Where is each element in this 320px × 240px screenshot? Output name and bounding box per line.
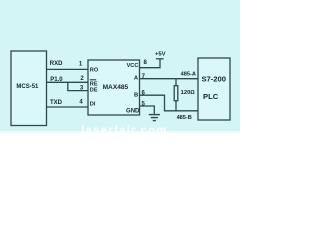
watermark laserfair.com — [81, 125, 168, 137]
+5V power terminal bar — [156, 58, 164, 60]
svg-text:485-A: 485-A — [181, 72, 196, 78]
svg-text:120Ω: 120Ω — [181, 90, 196, 96]
svg-text:DI: DI — [90, 102, 96, 108]
svg-text:laserfair.com: laserfair.com — [81, 125, 168, 137]
svg-text:B: B — [134, 92, 138, 98]
wire B pin 6 to PLC (net 485-B) — [140, 95, 199, 111]
ground symbol — [149, 115, 160, 121]
svg-text:RXD: RXD — [50, 61, 63, 67]
svg-text:MCS-51: MCS-51 — [16, 84, 39, 90]
svg-text:DE: DE — [90, 88, 98, 94]
IC U1 MCS-51 box — [11, 51, 47, 126]
svg-text:GND: GND — [126, 108, 140, 114]
svg-text:MAX485: MAX485 — [103, 84, 129, 91]
svg-text:485-B: 485-B — [177, 115, 192, 121]
svg-text:RO: RO — [90, 67, 99, 73]
svg-text:+5V: +5V — [155, 51, 166, 57]
wire GND pin 5 to ground — [140, 106, 155, 114]
svg-text:VCC: VCC — [127, 63, 139, 69]
resistor R 120 ohm — [174, 79, 178, 111]
svg-text:TXD: TXD — [50, 100, 63, 106]
wire A pin 7 to PLC (net 485-A) — [140, 78, 199, 80]
wire VCC pin 8 to +5V — [140, 59, 161, 68]
wire P1.0: MCS-51 to MAX485 pin 2 RE — [47, 81, 89, 83]
wire TXD: MCS-51 to MAX485 pin 4 DI — [47, 106, 89, 108]
svg-text:PLC: PLC — [203, 92, 219, 101]
IC U2 MAX485 box — [88, 60, 140, 115]
PLC S7-200 box — [198, 58, 230, 120]
svg-text:S7-200: S7-200 — [201, 74, 226, 83]
svg-text:P1.0: P1.0 — [50, 77, 63, 83]
wire RXD: MCS-51 to MAX485 pin 1 RO — [47, 68, 89, 70]
wire P1.0 branch to MAX485 pin 3 DE — [68, 82, 88, 90]
